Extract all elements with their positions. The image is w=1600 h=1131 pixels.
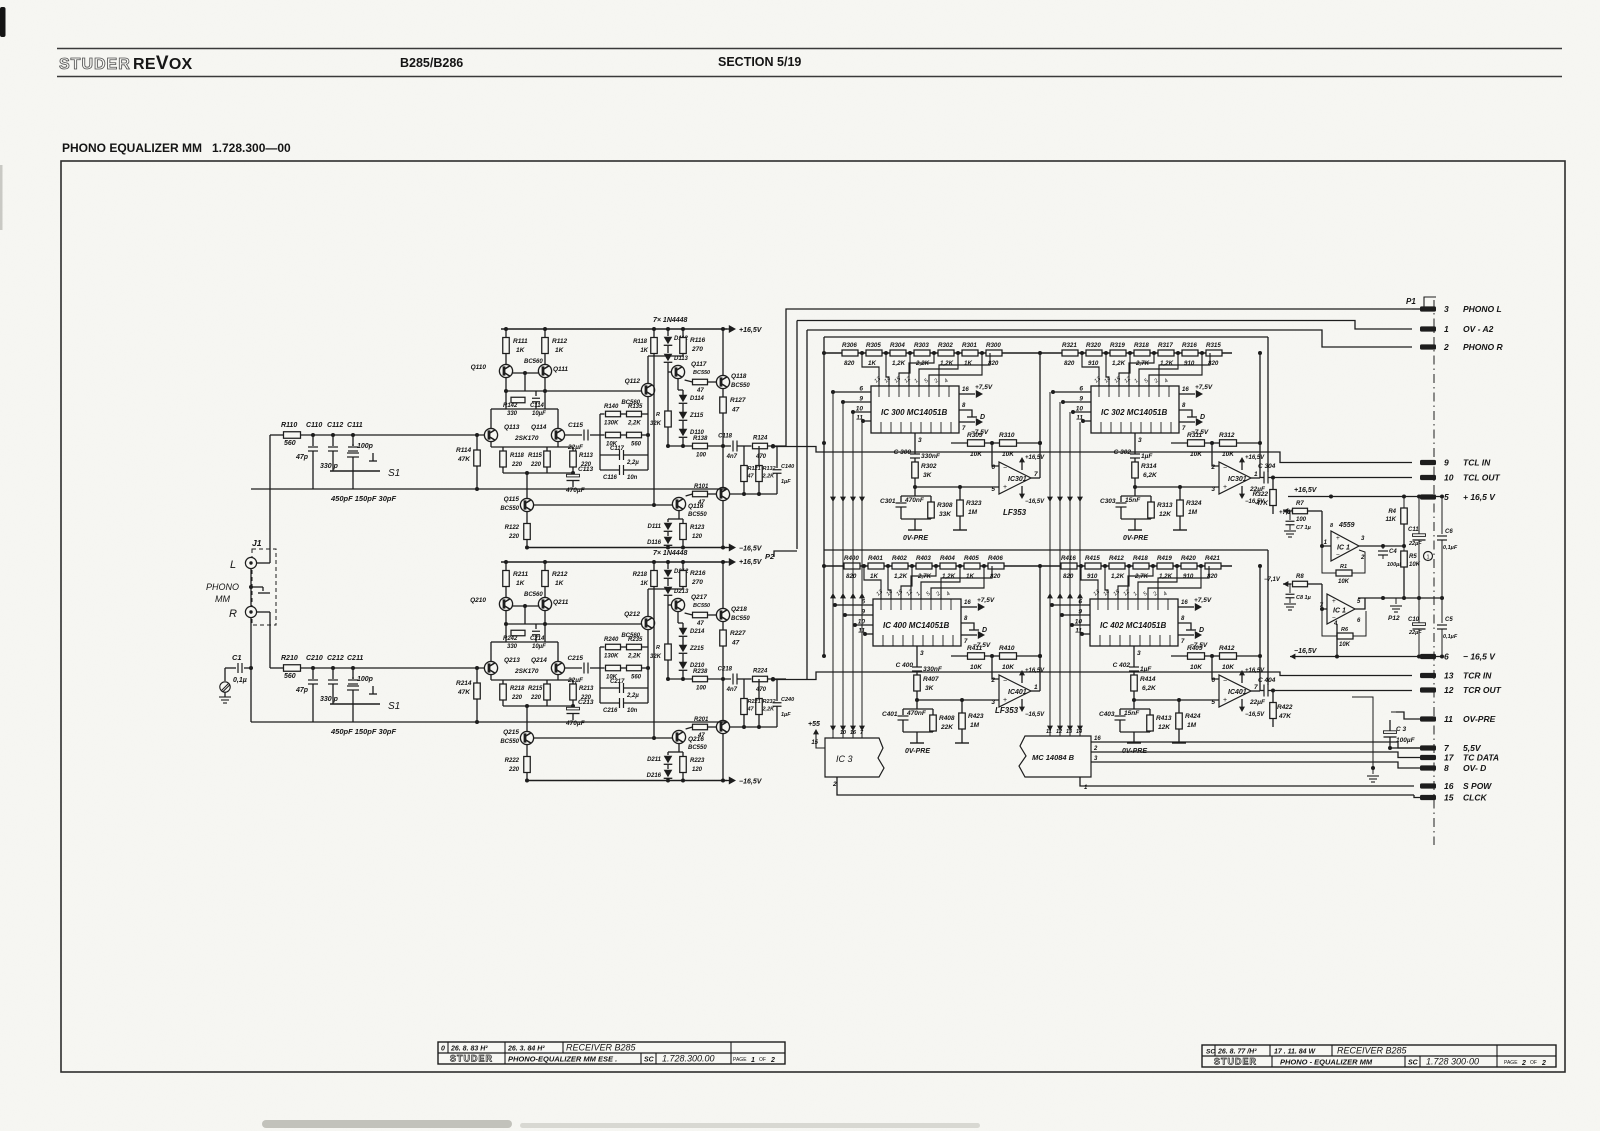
svg-text:+: + [1332, 598, 1336, 605]
svg-text:0V-PRE: 0V-PRE [903, 535, 928, 542]
svg-text:R122: R122 [505, 525, 520, 531]
diode D210 [679, 662, 688, 671]
svg-text:IC 1: IC 1 [1333, 608, 1346, 615]
wire to IC1b input [1322, 584, 1327, 609]
resistor R233 32K [665, 644, 672, 660]
svg-text:3K: 3K [923, 472, 933, 479]
capacitor 15nF C403 [1115, 716, 1126, 720]
capacitor C115 22uF [565, 434, 582, 436]
svg-text:10: 10 [1444, 473, 1454, 483]
arrow -16.5V [729, 544, 736, 552]
resistor R400 820 [844, 563, 860, 569]
wire pin 8 [1179, 410, 1192, 417]
svg-text:PHONO-EQUALIZER MM ESE .: PHONO-EQUALIZER MM ESE . [508, 1055, 617, 1064]
terminal bar [1172, 742, 1186, 744]
svg-text:OV- D: OV- D [1463, 763, 1486, 773]
svg-text:B285/B286: B285/B286 [400, 56, 463, 70]
node C211 [351, 666, 355, 670]
wire IC pin 10 [853, 411, 871, 413]
wire [722, 389, 724, 397]
wire row2 op-amp2 riser [1259, 566, 1261, 656]
wire [730, 493, 777, 495]
node ladder [1127, 564, 1131, 568]
wire [667, 546, 669, 548]
wire PHONO L to P1 pin 3 [786, 309, 1412, 447]
svg-text:C140: C140 [781, 464, 794, 470]
resistor R101 47 [693, 491, 708, 497]
connector J1 dashed outline [252, 549, 276, 625]
svg-text:1.728 300·00: 1.728 300·00 [1426, 1057, 1479, 1067]
svg-text:10K: 10K [1190, 664, 1203, 671]
resistor R7 100 [1283, 508, 1288, 514]
resistor R116 270 [680, 338, 687, 354]
svg-text:2: 2 [1541, 1060, 1546, 1067]
svg-text:RECEIVER B285: RECEIVER B285 [566, 1043, 637, 1053]
svg-text:R414: R414 [1140, 676, 1156, 683]
svg-text:47p: 47p [295, 687, 309, 694]
svg-text:1,2K: 1,2K [940, 360, 954, 367]
capacitor 330nF C 400 [912, 667, 922, 671]
capacitor C117 [600, 454, 619, 456]
svg-text:10K: 10K [1190, 451, 1203, 458]
svg-text:26. 8. 83 H²: 26. 8. 83 H² [450, 1046, 488, 1053]
wire [1134, 458, 1136, 462]
node ladder [860, 351, 864, 355]
wire [1017, 655, 1041, 657]
svg-text:3K: 3K [925, 685, 935, 692]
connector pin 17 TC DATA [1420, 755, 1436, 760]
transistor Q217 BC550 [671, 598, 684, 611]
resistor R131 560 [627, 432, 642, 438]
svg-text:10K: 10K [1339, 642, 1351, 648]
resistor R235 2.2K [627, 644, 642, 650]
svg-text:11: 11 [856, 415, 863, 422]
svg-text:R127: R127 [730, 397, 746, 404]
diode D111 [664, 523, 673, 532]
connector pin 15 CLCK [1420, 795, 1436, 800]
wire to op-amp + [917, 699, 999, 701]
wire [1121, 518, 1151, 520]
svg-text:6: 6 [1211, 677, 1215, 684]
node ladder [1128, 351, 1132, 355]
wire [667, 752, 669, 755]
svg-text:0,1µF: 0,1µF [1443, 545, 1458, 551]
resistor R421 820 [1205, 563, 1221, 569]
svg-text:C240: C240 [781, 697, 794, 703]
wire pin 16 [961, 606, 977, 608]
wire [722, 329, 724, 375]
svg-text:D211: D211 [647, 757, 662, 763]
svg-text:10n: 10n [627, 475, 638, 481]
wire [951, 442, 968, 444]
wire C1 to chassis [225, 667, 236, 669]
svg-text:32K: 32K [650, 421, 662, 427]
svg-text:3: 3 [1444, 304, 1449, 314]
svg-text:1K: 1K [966, 573, 974, 580]
title block cell line [504, 1042, 506, 1053]
svg-text:S POW: S POW [1463, 781, 1492, 791]
svg-text:SECTION 5/19: SECTION 5/19 [718, 55, 801, 69]
svg-text:+7,5V: +7,5V [975, 384, 993, 391]
wire [557, 409, 559, 428]
resistor R305 1K [866, 350, 882, 356]
wire [546, 700, 548, 706]
wire [572, 467, 574, 473]
resistor R121 47 [741, 466, 748, 482]
IC box IC 300 MC14051B [871, 386, 959, 433]
wire [722, 562, 724, 608]
wire to TCR OUT pin 12 [1269, 690, 1413, 692]
wire [722, 622, 724, 630]
node ladder [1152, 351, 1156, 355]
wire [526, 706, 528, 731]
svg-text:D: D [980, 414, 985, 421]
wire [1237, 442, 1261, 444]
resistor R403 2,7K [916, 563, 932, 569]
node C1 [249, 666, 253, 670]
wire to op-amp + [915, 486, 999, 488]
wire Q215 collector [534, 737, 673, 739]
svg-text:7× 1N4448: 7× 1N4448 [653, 317, 688, 324]
capacitor C111 100p trimmer [352, 435, 354, 446]
wire pin 6 stub [1412, 656, 1442, 658]
wire IC pin 6 [1052, 604, 1090, 606]
chassis ground symbol [220, 682, 230, 692]
wire [1403, 524, 1405, 546]
zener Z115 [679, 412, 688, 421]
svg-text:R311: R311 [1187, 432, 1202, 439]
svg-text:450pF 150pF 30pF: 450pF 150pF 30pF [330, 494, 396, 503]
wire [1133, 671, 1135, 675]
svg-text:2,2K: 2,2K [627, 654, 641, 660]
wire [667, 519, 669, 522]
svg-text:1,2K: 1,2K [1112, 360, 1126, 367]
svg-text:10n: 10n [627, 708, 638, 714]
svg-text:47: 47 [731, 407, 740, 414]
zener Z215 [679, 645, 688, 654]
connector pin 3 PHONO L [1420, 306, 1436, 311]
capacitor C116 [600, 469, 619, 471]
resistor R312 10K [1220, 440, 1237, 447]
svg-text:R420: R420 [1181, 555, 1196, 562]
svg-text:R410: R410 [999, 645, 1015, 652]
svg-text:D116: D116 [647, 540, 662, 546]
svg-text:1µF: 1µF [781, 712, 791, 718]
node select junction [1061, 400, 1065, 404]
svg-text:P12: P12 [1388, 615, 1400, 622]
wire [722, 413, 724, 487]
capacitor C10 22uF [1418, 598, 1420, 623]
svg-text:R315: R315 [1206, 342, 1221, 349]
node select junction [853, 623, 857, 627]
svg-text:22µF: 22µF [1408, 630, 1422, 636]
wire [1133, 691, 1135, 709]
resistor R133 32K [665, 411, 672, 427]
IC box IC 400 MC14051B [873, 599, 961, 646]
svg-text:D214: D214 [690, 629, 705, 635]
wire [647, 630, 649, 647]
svg-text:C401: C401 [882, 711, 898, 718]
wire op-amp to C404 [1260, 690, 1264, 692]
resistor R408 22K [930, 715, 937, 731]
svg-text:IC401: IC401 [1008, 689, 1027, 696]
wires ladder to IC inputs [864, 566, 992, 599]
wire input to FET gate [301, 667, 485, 669]
wire op-amp output [1251, 690, 1260, 692]
capacitor C210 47p [312, 668, 314, 679]
svg-text:C7 1µ: C7 1µ [1296, 525, 1312, 531]
wire [1308, 583, 1323, 585]
wire [544, 378, 546, 391]
wire -16.5V rail to pin 6 [1290, 654, 1295, 660]
wire [653, 562, 655, 571]
svg-text:R306: R306 [842, 342, 857, 349]
wire +16.5V rail to pin 5 [1288, 496, 1412, 498]
resistor R413 12K [1147, 715, 1154, 731]
svg-text:Q215: Q215 [503, 729, 519, 736]
svg-text:12: 12 [1444, 685, 1454, 695]
svg-text:R412: R412 [1109, 555, 1124, 562]
resistor R122 220 [524, 524, 531, 540]
svg-text:PHONO R: PHONO R [1463, 342, 1504, 352]
svg-text:Q112: Q112 [625, 378, 641, 385]
resistor R315 820 [1206, 350, 1222, 356]
wires ladder to IC inputs [862, 353, 990, 386]
svg-text:R302: R302 [938, 342, 953, 349]
arrow -16.5V op-amp supply [1241, 699, 1243, 710]
svg-text:OV-PRE: OV-PRE [1463, 714, 1496, 724]
wire [476, 699, 478, 722]
wire [647, 589, 649, 616]
title block cell line [1214, 1045, 1216, 1056]
svg-text:R5: R5 [1409, 554, 1417, 560]
svg-text:R406: R406 [988, 555, 1003, 562]
node ladder [908, 351, 912, 355]
svg-text:Q115: Q115 [504, 496, 520, 503]
wire pin 7 stub [1390, 747, 1420, 749]
wire [668, 371, 671, 373]
wire to op-amp inverting input [1212, 443, 1219, 466]
svg-text:+7,5V: +7,5V [1194, 597, 1212, 604]
svg-text:R302: R302 [921, 463, 937, 470]
wire IC pin 9 [845, 614, 873, 616]
wire [682, 540, 684, 548]
svg-text:OV - A2: OV - A2 [1463, 324, 1494, 334]
diode D110 [679, 429, 688, 438]
svg-text:9: 9 [1079, 396, 1083, 403]
connector pin 7 5,5V [1420, 745, 1436, 750]
arrow +16.5V [729, 325, 736, 333]
svg-text:R118: R118 [510, 453, 525, 459]
svg-text:C117: C117 [610, 446, 625, 452]
svg-text:6,2K: 6,2K [1142, 685, 1157, 692]
svg-text:2: 2 [1093, 746, 1098, 752]
wire [932, 709, 934, 715]
resistor R320 910 [1086, 350, 1102, 356]
wire IC pin 10 [1073, 411, 1091, 413]
svg-text:C211: C211 [347, 655, 363, 662]
svg-text:PHONO EQUALIZER MM 1.728.300: PHONO EQUALIZER MM 1.728.300—00 [62, 141, 291, 155]
svg-text:P1: P1 [1406, 297, 1416, 306]
wire jack R out [257, 611, 270, 613]
svg-text:120: 120 [692, 767, 703, 773]
svg-text:1,2K: 1,2K [1111, 573, 1125, 580]
svg-text:17: 17 [1444, 753, 1455, 763]
svg-text:16: 16 [964, 600, 971, 606]
wire right bus down row 2 [1267, 550, 1269, 685]
svg-text:R140: R140 [604, 404, 619, 410]
svg-text:330nF: 330nF [921, 453, 941, 460]
svg-text:R308: R308 [937, 502, 953, 509]
wire [502, 700, 504, 706]
wire IC1a output [1359, 545, 1404, 547]
svg-text:R114: R114 [456, 447, 471, 454]
transistor Q214 2SK170 [551, 661, 564, 674]
node select junction [1060, 613, 1064, 617]
svg-text:Q212: Q212 [624, 611, 640, 618]
svg-text:2: 2 [770, 1057, 775, 1064]
resistor R218b 1K [651, 571, 658, 587]
resistor R314 6,2K [1132, 462, 1139, 478]
wire cap C11 to rail [352, 457, 354, 489]
svg-text:R422: R422 [1277, 704, 1293, 711]
resistor R406 820 [988, 563, 1004, 569]
svg-text:+16,5V: +16,5V [739, 559, 763, 566]
wire [902, 720, 904, 732]
resistor R213 220 [570, 684, 577, 700]
wire IC pin 11 [865, 633, 873, 635]
svg-text:Q214: Q214 [531, 657, 547, 664]
svg-text:10K: 10K [1222, 451, 1235, 458]
svg-text:R300: R300 [986, 342, 1001, 349]
svg-text:47K: 47K [1278, 713, 1292, 720]
wire pin 3 [914, 433, 916, 454]
svg-text:C218: C218 [718, 667, 733, 673]
svg-text:C 304: C 304 [1258, 463, 1276, 470]
svg-text:5: 5 [991, 486, 995, 493]
svg-text:10: 10 [1076, 406, 1084, 413]
transistor Q118 BC550 [716, 375, 729, 388]
wire [476, 668, 478, 683]
node select junction [1071, 410, 1075, 414]
svg-text:IC 300 MC14051B: IC 300 MC14051B [881, 408, 947, 417]
svg-text:BC550: BC550 [693, 603, 710, 609]
svg-text:BC550: BC550 [731, 616, 750, 622]
resistor R321 820 [1062, 350, 1078, 356]
wire pin 16 [1179, 393, 1195, 395]
wire [667, 532, 669, 536]
connector pin 8 OV- D [1420, 765, 1436, 770]
capacitor C140 1uF [776, 446, 778, 468]
svg-text:2,2µ: 2,2µ [626, 460, 639, 466]
wires MC14084B outputs [1091, 742, 1420, 748]
svg-text:IC301: IC301 [1008, 476, 1027, 483]
wire [930, 496, 932, 502]
wire IC pin 9 [1063, 401, 1091, 403]
svg-text:− 16,5 V: − 16,5 V [1463, 652, 1496, 662]
svg-text:270: 270 [691, 579, 703, 586]
node ladder [1079, 564, 1083, 568]
svg-text:5: 5 [1211, 699, 1215, 706]
title block cell line [447, 1042, 449, 1053]
svg-text:3: 3 [1137, 650, 1141, 657]
svg-text:560: 560 [284, 673, 296, 680]
svg-text:1K: 1K [555, 347, 565, 354]
svg-text:330: 330 [507, 644, 518, 650]
wire [1171, 655, 1188, 657]
resistor R424 1M [1176, 713, 1183, 729]
svg-text:C116: C116 [603, 475, 618, 481]
wire [1178, 729, 1180, 743]
wire [490, 442, 492, 447]
diode D113 [664, 354, 673, 363]
capacitor C6 0.1uF [1441, 497, 1443, 535]
svg-text:C301: C301 [880, 498, 896, 505]
svg-text:2: 2 [1360, 555, 1365, 561]
svg-text:26. 8. 77 /H²: 26. 8. 77 /H² [1217, 1049, 1257, 1056]
wire [526, 745, 528, 757]
svg-text:1: 1 [1427, 555, 1430, 561]
wire [1149, 731, 1151, 732]
wire [685, 380, 693, 382]
svg-text:1K: 1K [640, 348, 648, 354]
node select junction [1081, 419, 1085, 423]
wire MC14084B pin 1 [1080, 777, 1414, 786]
svg-text:J1: J1 [252, 538, 262, 548]
wire shield tab [251, 586, 263, 588]
wire [490, 642, 492, 661]
svg-text:22µF: 22µF [1249, 699, 1266, 706]
svg-text:100µF: 100µF [1396, 737, 1416, 744]
wire [985, 655, 1000, 657]
svg-text:+: + [1223, 697, 1227, 704]
wire [506, 641, 545, 643]
wire source bus [491, 679, 573, 681]
node select junction [863, 632, 867, 636]
svg-text:1K: 1K [868, 360, 876, 367]
svg-text:Q210: Q210 [470, 597, 486, 604]
capacitor 1&#181;F C 402 [1129, 667, 1139, 671]
svg-text:1K: 1K [516, 580, 526, 587]
svg-text:6: 6 [1444, 652, 1449, 662]
wire [1150, 518, 1152, 519]
svg-text:9: 9 [1444, 458, 1449, 468]
svg-text:130K: 130K [604, 654, 619, 660]
title block cell line [1419, 1056, 1421, 1067]
svg-text:R318: R318 [1134, 342, 1149, 349]
node ladder [884, 351, 888, 355]
node ladder [982, 564, 986, 568]
svg-text:R412: R412 [1219, 645, 1235, 652]
connector pin 5 + 16,5 V [1420, 494, 1436, 499]
wire [642, 434, 649, 436]
capacitor C215 22uF [565, 667, 582, 669]
wire [722, 501, 724, 548]
wire output [668, 445, 731, 447]
terminal bar [955, 742, 969, 744]
wire OV-A2 riser [796, 321, 798, 550]
svg-text:R411: R411 [967, 645, 982, 652]
node ladder [1104, 351, 1108, 355]
wire [677, 612, 679, 623]
svg-text:3: 3 [1138, 437, 1142, 444]
capacitor 1&#181;F C 302 [1130, 454, 1140, 458]
svg-text:R240: R240 [604, 637, 619, 643]
connector pin 1 OV - A2 [1420, 326, 1436, 331]
select bus lines to IC3 [832, 392, 834, 738]
svg-text:10K: 10K [1002, 451, 1015, 458]
wire op-amp output [1031, 477, 1040, 479]
